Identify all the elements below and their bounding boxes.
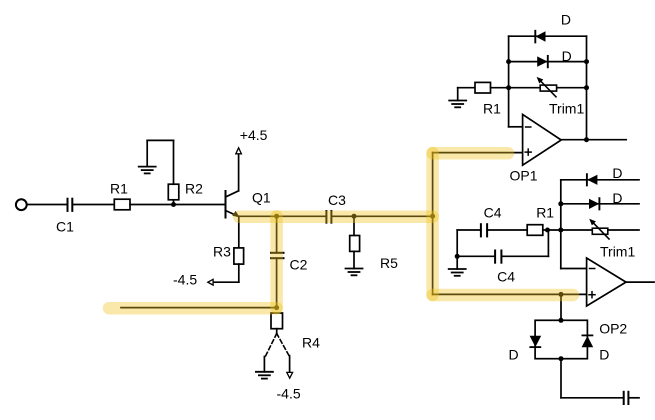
svg-text:-4.5: -4.5 bbox=[277, 386, 301, 402]
svg-text:D: D bbox=[562, 48, 572, 64]
svg-text:R4: R4 bbox=[302, 335, 320, 351]
svg-text:OP2: OP2 bbox=[599, 320, 627, 336]
svg-text:C3: C3 bbox=[328, 192, 346, 208]
svg-text:Q1: Q1 bbox=[252, 190, 271, 206]
svg-text:OP1: OP1 bbox=[510, 168, 538, 184]
svg-text:D: D bbox=[612, 190, 622, 206]
svg-text:R1: R1 bbox=[110, 181, 128, 197]
svg-text:R5: R5 bbox=[380, 255, 398, 271]
svg-text:Trim1: Trim1 bbox=[549, 101, 584, 117]
svg-text:Trim1: Trim1 bbox=[600, 244, 635, 260]
svg-text:C2: C2 bbox=[290, 257, 308, 273]
svg-text:R2: R2 bbox=[185, 181, 203, 197]
svg-text:D: D bbox=[612, 165, 622, 181]
svg-text:C4: C4 bbox=[484, 205, 502, 221]
svg-text:D: D bbox=[599, 347, 609, 363]
svg-text:D: D bbox=[561, 12, 571, 28]
svg-text:C1: C1 bbox=[56, 218, 74, 234]
svg-text:D: D bbox=[509, 347, 519, 363]
svg-text:-4.5: -4.5 bbox=[173, 272, 197, 288]
svg-text:R1: R1 bbox=[536, 205, 554, 221]
svg-text:R3: R3 bbox=[213, 243, 231, 259]
svg-text:R1: R1 bbox=[483, 101, 501, 117]
svg-text:+4.5: +4.5 bbox=[240, 127, 268, 143]
svg-text:C4: C4 bbox=[497, 268, 515, 284]
